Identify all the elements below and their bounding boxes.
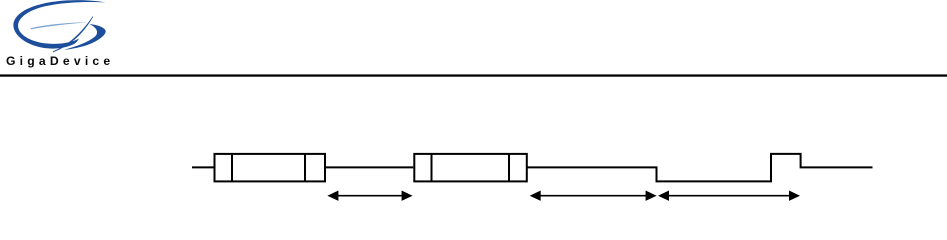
wire: lead-in segment [192,166,214,168]
bold comma [64,24,106,50]
arrow 3 (low period) [658,191,800,201]
logo GigaDevice swoosh [13,0,105,52]
frame box 1 left divider [231,154,233,182]
wire: idle then falling edge, low level, pulse, tail [527,154,873,182]
frame box 1 [215,154,326,182]
light middle stroke [31,22,88,29]
slash stroke [53,16,93,52]
wire: between frames [325,166,413,168]
frame box 2 [414,154,527,182]
frame box 2 right divider [508,154,510,182]
header rule [0,74,947,76]
svg-text:GigaDevice: GigaDevice [6,54,114,68]
frame box 1 right divider [304,154,306,182]
frame box 2 left divider [431,154,433,182]
arrow 1 (between frame1 and frame2) [327,191,412,201]
main ellipse ring [13,0,105,48]
arrow 2 (after frame2 to falling edge) [530,191,657,201]
